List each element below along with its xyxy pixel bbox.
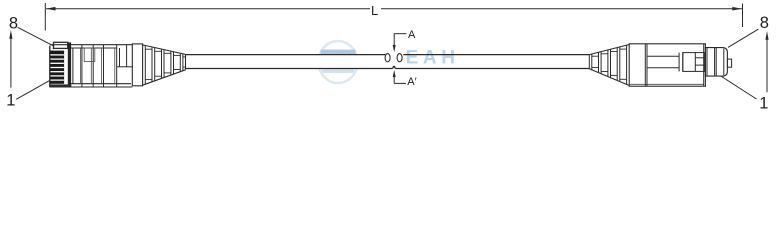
svg-text:1: 1 <box>6 92 15 110</box>
svg-text:A′: A′ <box>407 76 416 88</box>
svg-text:1: 1 <box>759 95 768 113</box>
svg-text:8: 8 <box>760 14 769 32</box>
svg-text:L: L <box>371 3 378 18</box>
svg-text:8: 8 <box>9 14 18 32</box>
svg-text:A: A <box>408 29 416 41</box>
